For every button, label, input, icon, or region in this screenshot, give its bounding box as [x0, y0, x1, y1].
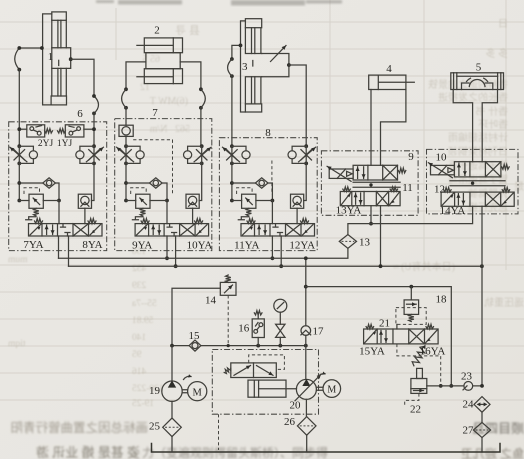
wire valve11 A to manifold [369, 206, 373, 226]
pump station enclosure [212, 350, 318, 415]
ball check 23 on output line [427, 382, 484, 391]
suction filter 25 [163, 401, 182, 452]
dashed enclosure box 8 [219, 138, 317, 251]
svg-text:11: 11 [402, 182, 413, 194]
drain pilot line to tank [218, 414, 220, 450]
wire cyl4 left port to valve 9 [370, 90, 372, 166]
cylinder 2 [137, 38, 183, 84]
svg-text:4: 4 [386, 63, 392, 75]
wire cyl3 left to box 8 [228, 44, 243, 147]
svg-text:M: M [327, 385, 336, 396]
directional valve 11 (13YA) [340, 187, 400, 206]
svg-text:12: 12 [434, 184, 445, 196]
svg-text:3: 3 [242, 61, 248, 73]
pilot prop valve 9 [327, 165, 406, 181]
svg-text:2YJ: 2YJ [38, 139, 54, 149]
svg-text:24: 24 [463, 399, 475, 411]
svg-text:日刊材架钢领: 日刊材架钢领 [448, 145, 508, 158]
variable pump 20 with motor [295, 346, 341, 401]
svg-text:10: 10 [436, 152, 448, 164]
svg-text:画标总因之置曲管行青阳: 画标总因之置曲管行青阳 [10, 420, 148, 435]
svg-text:23: 23 [461, 371, 473, 383]
svg-text:452: 452 [132, 264, 147, 274]
svg-text:25: 25 [149, 421, 161, 433]
directional valve 21 (15YA/16YA) [364, 324, 439, 344]
wire valve7 T to bus2 [174, 236, 178, 268]
one-way throttle valve box6 left [10, 144, 38, 165]
one-way throttle valve box8 right [288, 144, 316, 165]
dashed enclosure box 10 [427, 149, 519, 214]
pressure relay 2YJ [17, 125, 52, 137]
svg-text:27: 27 [463, 425, 475, 437]
svg-text:19: 19 [149, 385, 161, 397]
svg-text:计村括翅编雨: 计村括翅编雨 [448, 131, 508, 144]
svg-text:16YA: 16YA [420, 346, 446, 358]
svg-text:140: 140 [132, 333, 147, 343]
svg-text:遥压重轨: 遥压重轨 [484, 296, 524, 309]
svg-text:65 5: 65 5 [143, 54, 161, 65]
tank return line [152, 444, 501, 453]
check valve 17 on pump20 riser [301, 256, 311, 345]
svg-text:鱼之 迎几卫: 鱼之 迎几卫 [461, 447, 524, 459]
svg-text:9: 9 [408, 151, 414, 163]
wire cyl2 right to box 7 [180, 62, 205, 146]
pilot check valve box7 top [119, 125, 133, 146]
svg-text:6: 6 [77, 108, 83, 120]
one-way throttle valve box8 left [223, 144, 251, 165]
pressure valve 22 [405, 368, 427, 407]
svg-text:239: 239 [132, 281, 147, 291]
wire valve6 P to bus1 [58, 236, 60, 258]
svg-text:562 N/m: 562 N/m [150, 124, 191, 135]
wire cyl3 right to box 8 [287, 63, 306, 146]
pilot prop valve 10 [428, 162, 509, 178]
wire valve12 B down (return riser) [481, 206, 483, 386]
cylinder 5 rotary clamp [451, 73, 504, 90]
wire cyl5 right leg to valve 10 [482, 90, 497, 162]
counterbalance group box 7 [124, 163, 202, 223]
svg-text:18: 18 [436, 294, 448, 306]
svg-text:2: 2 [154, 25, 160, 37]
filter 13 [339, 235, 356, 249]
wire valve11 B to bus T [379, 206, 383, 268]
wire pump19 riser to valve 14 [172, 288, 220, 345]
svg-text:416: 416 [132, 367, 147, 377]
pilot line box7 [133, 140, 172, 194]
directional valve 7YA/8YA [29, 219, 103, 236]
svg-text:16: 16 [238, 323, 250, 335]
svg-text:11YA: 11YA [234, 240, 259, 252]
wire cyl1 head-side to throttle 6R [69, 57, 99, 146]
one-way throttle valve box7 right [184, 144, 212, 165]
svg-text:总先行褐: 总先行褐 [468, 201, 508, 214]
cooler 24 [474, 397, 490, 413]
svg-text:香什 书: 香什 书 [476, 106, 509, 118]
suction filter 26 [297, 399, 316, 452]
wire cyl2 left to box 7 [122, 62, 146, 125]
pressure gauge switch 16 [252, 311, 264, 346]
dashed enclosure box 6 [9, 122, 107, 251]
wire cyl1 rod-side to throttle 6L [15, 46, 44, 146]
svg-text:59.81: 59.81 [132, 316, 154, 326]
svg-text:15YA: 15YA [359, 346, 385, 358]
dashed enclosure box 7 [115, 119, 212, 251]
pressure relay 1YJ [58, 125, 96, 137]
svg-text:15: 15 [189, 330, 201, 342]
control cylinder of pump 20 [248, 380, 297, 397]
svg-text:管子驾逝于吾: 管子驾逝于吾 [448, 159, 508, 172]
relief valve 14 [220, 275, 236, 346]
remote spring link 16YA to valve 22 [412, 345, 425, 366]
directional valve 12 (14YA) [441, 188, 514, 207]
svg-text:12YA: 12YA [289, 240, 315, 252]
subplate lines box 9 [353, 182, 400, 187]
cylinder 4 [369, 75, 415, 89]
svg-text:14YA: 14YA [440, 205, 466, 217]
manifold line to filter 13 [348, 206, 473, 234]
svg-text:是: 是 [514, 181, 524, 193]
svg-text:20: 20 [290, 400, 302, 412]
shut-off valve and pressure gauge [274, 299, 287, 345]
svg-text:tiqm: tiqm [7, 339, 25, 349]
svg-text:顺目四且: 顺目四且 [472, 421, 524, 436]
svg-text:55--7a: 55--7a [131, 299, 157, 309]
directional valve 9YA/10YA [135, 219, 209, 236]
main line pump19 to junction [170, 344, 308, 348]
svg-text:13YA: 13YA [336, 205, 362, 217]
check valve 15 [189, 340, 201, 351]
counterbalance group box 6 [17, 163, 94, 223]
svg-text:21: 21 [379, 318, 390, 330]
wire valve8 T to bus2 [279, 236, 283, 268]
wire valve7 P to bus1 [165, 236, 169, 260]
svg-text:县 寻: 县 寻 [175, 24, 200, 37]
svg-text:1YJ: 1YJ [57, 139, 73, 149]
svg-text:5: 5 [476, 62, 482, 74]
cylinder 3 with stroke throttle [241, 19, 289, 112]
counterbalance group box 8 [230, 163, 306, 223]
svg-text:19-25: 19-25 [132, 399, 154, 409]
supply tap line to relief 18 and port [306, 285, 453, 388]
svg-text:7: 7 [152, 107, 158, 119]
directional valve 11YA/12YA [241, 219, 315, 236]
subplate lines box 10 [450, 181, 505, 186]
svg-text:mum: mum [7, 255, 27, 265]
one-way throttle valve box7 left [117, 144, 145, 165]
pilot line valve21 to line [397, 344, 443, 388]
svg-text:95: 95 [132, 350, 142, 360]
svg-text:1: 1 [48, 51, 54, 63]
svg-text:M: M [193, 387, 203, 398]
svg-text:13: 13 [359, 237, 371, 249]
wire valve8 P to bus1 [271, 236, 275, 260]
svg-text:多 多: 多 多 [486, 47, 509, 60]
bus line T [69, 264, 484, 268]
wire relief18 to valve 21 [396, 324, 398, 329]
svg-text:7YA: 7YA [23, 239, 43, 251]
dashed enclosure box 9 [321, 151, 418, 216]
svg-text:8YA: 8YA [82, 239, 102, 251]
svg-text:17: 17 [313, 326, 325, 338]
displacement control valve [224, 355, 284, 378]
pump 19 with motor [162, 346, 207, 402]
wire valve6 T to bus2 [68, 236, 70, 266]
svg-text:9YA: 9YA [132, 240, 152, 252]
pilot relief valve 18 [396, 287, 426, 325]
svg-text:10YA: 10YA [187, 240, 213, 252]
pilot line box8 [271, 161, 273, 195]
svg-text:8: 8 [265, 127, 271, 139]
svg-text:14: 14 [205, 295, 217, 307]
svg-text:22: 22 [410, 404, 421, 416]
svg-text:26: 26 [284, 416, 296, 428]
filter 27 [473, 412, 490, 452]
svg-text:(6)MW T: (6)MW T [150, 96, 188, 107]
wire cyl4 right port to valve 9 [381, 90, 406, 166]
bus line P (to filter 13) [59, 248, 348, 258]
one-way throttle valve box6 right [76, 144, 104, 165]
svg-text:先臂驾驶: 先臂驾驶 [468, 187, 508, 200]
svg-text:日: 日 [498, 19, 508, 30]
svg-text:姿 甚是 婚 业讯 游: 姿 甚是 婚 业讯 游 [36, 445, 140, 459]
wire cyl5 left leg to valve 10 [453, 90, 472, 162]
cylinder 1 [43, 12, 71, 105]
